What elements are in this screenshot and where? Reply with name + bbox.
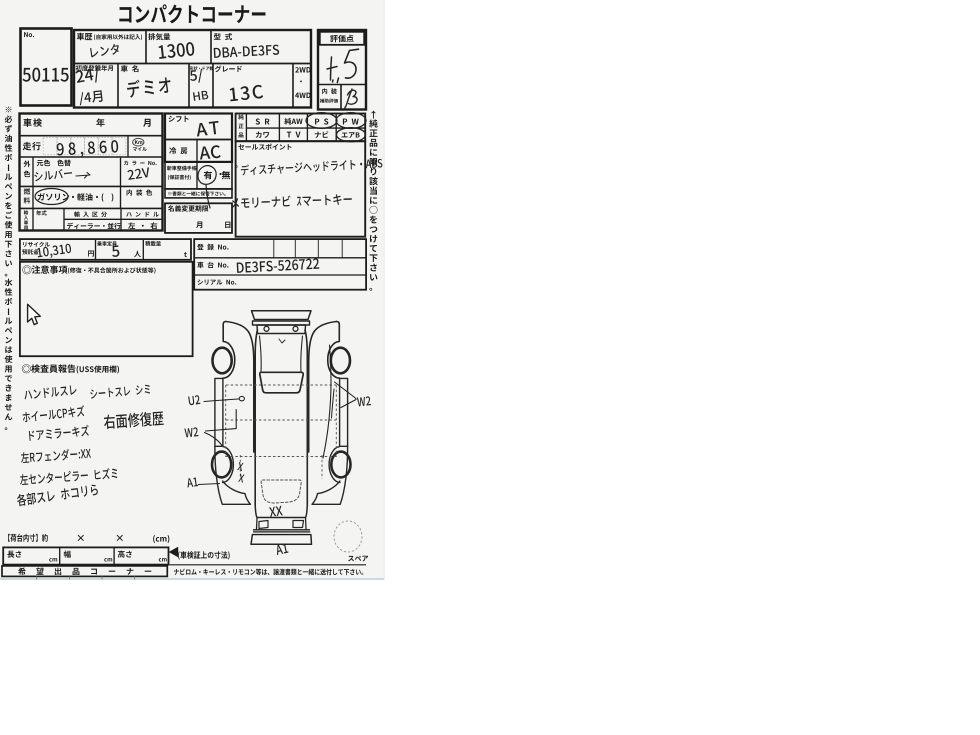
option circles: [306, 113, 337, 129]
annotation U2: [188, 395, 200, 406]
left margin note: [5, 107, 13, 430]
junseihin options: [236, 114, 366, 142]
front-right wheel: [331, 348, 350, 374]
recycle row: [20, 239, 191, 260]
rear-left wheel: [212, 452, 231, 478]
dashed projection lines: [226, 384, 336, 386]
XX marks: [237, 462, 244, 471]
annotation W2 left: [184, 427, 198, 437]
hw score: [331, 57, 332, 80]
hw mileage: [56, 140, 118, 159]
hw 車歴 value: [90, 43, 120, 57]
rear bumper: [253, 529, 310, 531]
middle-left table: [20, 114, 163, 231]
pen stroke on right door: [323, 345, 331, 458]
spare circle: [334, 521, 362, 552]
front-left wheel: [213, 348, 232, 374]
body outline: [255, 330, 307, 505]
hw color: [34, 168, 72, 181]
right side panel: [328, 321, 340, 378]
hw recycle: [37, 243, 72, 259]
hood creases: [260, 336, 303, 372]
hw notes: [24, 385, 77, 400]
sales point: [236, 141, 366, 237]
mouse cursor: [28, 304, 41, 324]
hw sales points: [236, 157, 383, 176]
title: [119, 4, 265, 23]
shift block: [165, 114, 232, 162]
rear window dashed: [261, 480, 301, 503]
hyoukaten: [318, 30, 366, 110]
car diagram: front bumper: [252, 311, 312, 320]
annotation A1 left: [186, 477, 198, 487]
windshield: [260, 372, 303, 393]
annotation W2 right: [357, 396, 371, 406]
shaken sunpou note: [170, 547, 178, 556]
kensain report: [22, 364, 31, 373]
No. box: [21, 29, 72, 106]
circle on 有: [198, 166, 216, 209]
left side panel: [223, 321, 235, 378]
rear deck and lights: [255, 505, 307, 518]
rear-right wheel: [331, 452, 350, 478]
right margin note: [369, 110, 377, 290]
hw chassis no: [237, 258, 320, 273]
front panel: [257, 325, 306, 334]
nidai size: [8, 534, 48, 542]
registration block: [194, 239, 366, 290]
header table: [74, 30, 311, 108]
chuui box: [20, 262, 193, 356]
